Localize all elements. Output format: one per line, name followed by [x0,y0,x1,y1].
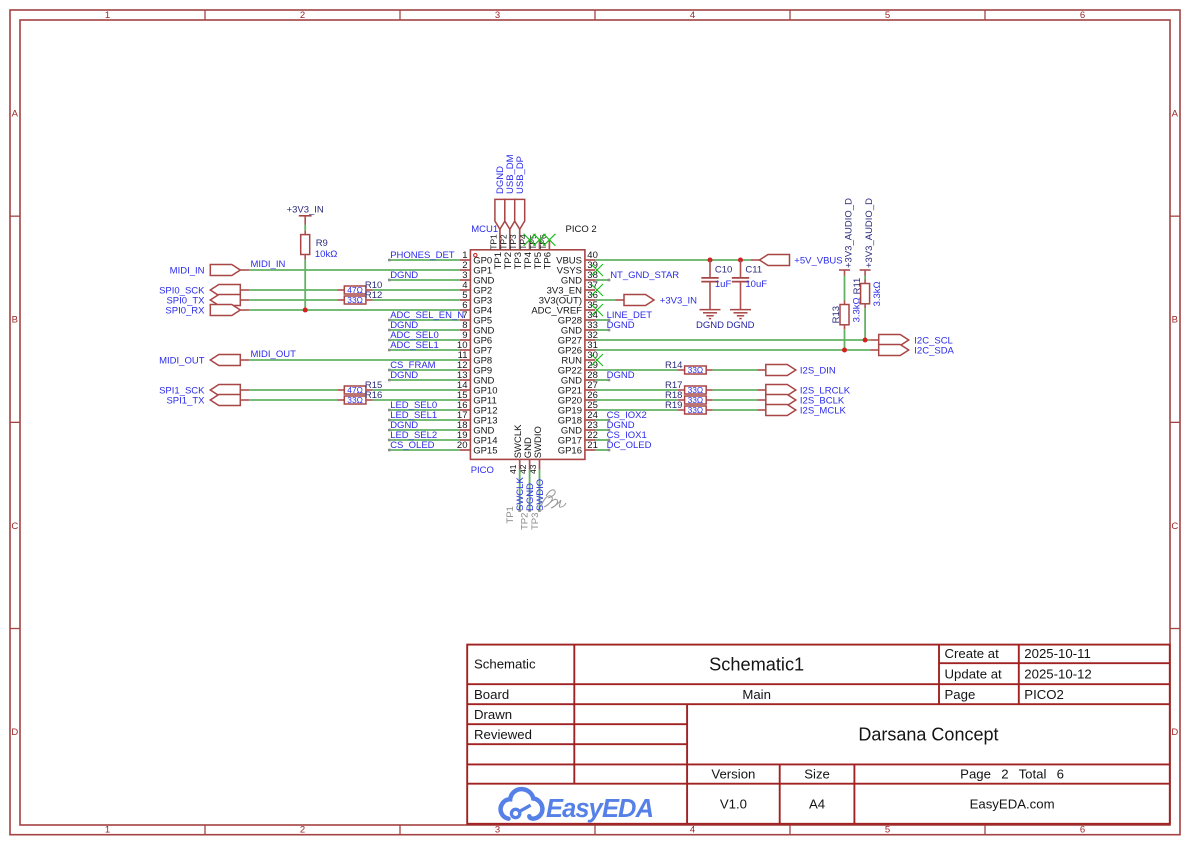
svg-text:1uF: 1uF [715,279,732,290]
net label DGND pin3 [390,270,418,281]
net label DGND (vertical) [495,166,506,194]
svg-text:Version: Version [711,767,755,782]
svg-text:CS_OLED: CS_OLED [390,440,434,451]
title text Update at [945,666,1003,681]
svg-text:3: 3 [495,10,500,21]
value 33ohm R12 [347,295,363,305]
ground net label DGND (C10) [696,320,724,331]
pin 6 GP4 (left) stub + number + name [460,300,492,316]
svg-text:NT_GND_STAR: NT_GND_STAR [610,270,679,281]
EasyEDA logo [501,789,654,823]
svg-text:4: 4 [690,10,695,21]
net label DGND pin33 [607,320,635,331]
op-amp? no - MCU U1 body rectangle (PICO 2) [470,250,585,460]
svg-text:I2C_SDA: I2C_SDA [914,346,954,357]
pin 37 3V3_EN (right) stub + number + name [547,280,598,296]
wire R11 to I2C_SCL [864,308,866,340]
resistor R16 33ohm [338,396,373,404]
resistor R17 33ohm [678,386,713,394]
title text Page [945,687,976,702]
svg-text:DGND: DGND [390,370,418,381]
port label I2S_BCLK [800,396,845,407]
svg-text:A: A [1172,109,1179,120]
svg-text:TP2: TP2 [520,513,531,530]
label C11 [745,264,762,275]
wire pin28 net DGND [595,379,610,382]
svg-text:TP3: TP3 [530,513,541,530]
pin 21 GP16 (right) stub + number + name [558,440,598,456]
svg-text:B: B [1172,315,1178,326]
value 3.3kohm R13 (vertical) [851,297,862,322]
net label LED_SEL0 pin16 [390,400,437,411]
net label CS_IOX2 pin24 [607,410,647,421]
net label ADC_SEL_EN_N pin7 [390,310,464,321]
wire SWDIO bottom pin [538,470,541,512]
port label SPI0_SCK [159,286,205,297]
wire pin8 net DGND [388,329,460,332]
wire pin7 net ADC_SEL_EN_N [388,319,460,322]
net label DGND pin13 [390,370,418,381]
svg-text:PICO2: PICO2 [1024,687,1064,702]
pin 8 GND (left) stub + number + name [460,320,495,336]
value 47ohm R15 [347,385,363,395]
connector funnel on TP2 [505,199,515,229]
pin 43 SWDIO (bottom) stub + number + name [528,426,544,474]
svg-text:47Ω: 47Ω [347,285,363,295]
svg-text:Darsana Concept: Darsana Concept [858,724,998,744]
wire R9 to SPI0_RX [304,260,306,310]
net label USB_DP (vertical) [515,156,526,194]
svg-text:+5V_VBUS: +5V_VBUS [794,256,842,267]
pin 25 GP19 (right) stub + number + name [558,400,598,416]
label R18 [665,390,682,401]
svg-text:MCU1: MCU1 [471,224,498,235]
svg-text:A: A [12,109,19,120]
value 33ohm R17 [688,385,704,395]
svg-text:R16: R16 [365,390,382,401]
net label DGND pin28 [607,370,635,381]
svg-text:5: 5 [885,10,890,21]
wire R14 to I2S_DIN port [713,369,758,371]
port label I2S_DIN [800,366,836,377]
wire R13 to I2C_SDA [844,329,846,350]
port label MIDI_IN [170,266,205,277]
label R11 (vertical) [852,278,863,295]
pin TP3 (top) stub + number + name [508,229,524,269]
wire R18 to I2S_BCLK port [713,399,758,401]
wire VBUS pin40 [595,259,751,261]
svg-text:DGND: DGND [696,320,724,331]
title text Version [711,767,755,782]
svg-text:R12: R12 [365,290,382,301]
port SPI1_SCK connector [210,385,249,396]
svg-text:MIDI_IN: MIDI_IN [170,266,205,277]
resistor R10 47ohm [338,286,373,294]
label R17 [665,380,682,391]
title value A4 [809,796,825,811]
pin 26 GP20 (right) stub + number + name [558,390,598,406]
resistor R18 33ohm [678,396,713,404]
label R16 [365,390,382,401]
wire +3V3_IN pin36 [595,299,616,301]
net label DGND pin23 [607,420,635,431]
svg-text:41: 41 [508,464,518,474]
wire pin18 net DGND [388,429,460,432]
wire SPI0_RX pin6 [249,309,460,311]
wire pin20 net CS_OLED [388,449,460,452]
pin 42 GND (bottom) stub + number + name [518,437,534,474]
port I2S_MCLK connector [757,405,796,416]
svg-text:Update at: Update at [945,666,1003,681]
wire MIDI_OUT pin11 [249,359,460,361]
MCU value PICO 2 [566,224,597,235]
port I2S_LRCLK connector [757,385,796,396]
no-connect flag on TP5 [534,234,546,246]
ground DGND under C11 [730,310,751,319]
svg-text:5: 5 [885,824,890,835]
title value 2025-10-11 [1024,646,1090,661]
port I2S_BCLK connector [757,395,796,406]
title value 2025-10-12 [1024,666,1091,681]
port label I2C_SCL [914,336,953,347]
value 1uF C10 [715,279,732,290]
value 33ohm R14 [688,365,704,375]
svg-text:TP6: TP6 [543,252,554,269]
net label USB_DM (vertical) [505,154,516,194]
connector funnel on TP3 [515,199,525,229]
wire pin9 net ADC_SEL0 [388,339,460,342]
wire pin27 to R17 [595,389,678,391]
svg-text:4: 4 [690,824,695,835]
MCU reference designator MCU1 [471,224,498,235]
net label SWDIO (vertical) [535,479,546,511]
no-connect flag on TP4 [524,234,536,246]
wire pin3 net DGND [388,279,460,282]
svg-text:D: D [11,727,18,738]
label R9 [316,238,328,249]
pin 16 GP12 (left) stub + number + name [457,400,498,416]
svg-text:ADC_SEL1: ADC_SEL1 [390,340,439,351]
svg-text:+3V3_AUDIO_D: +3V3_AUDIO_D [864,198,875,268]
net label DGND (vertical) [525,483,536,511]
svg-text:C: C [11,521,18,532]
svg-text:Create at: Create at [945,646,1000,661]
pin 1 GP0 (left) stub + number + name [460,250,492,266]
wire pin24 net CS_IOX2 [595,419,610,422]
svg-text:I2S_MCLK: I2S_MCLK [800,406,847,417]
title text Schematic1 [709,655,804,675]
connector funnel on TP1 [495,199,505,229]
net label LINE_DET pin34 [607,310,653,321]
pin 4 GP2 (left) stub + number + name [460,280,492,296]
wire MIDI_IN pin2 [249,269,460,271]
pin-1 origin marker dot [474,254,477,257]
svg-text:33Ω: 33Ω [688,405,704,415]
net label DGND pin8 [390,320,418,331]
pin 33 GND (right) stub + number + name [561,320,598,336]
svg-text:+3V3_IN: +3V3_IN [660,296,697,307]
svg-text:C10: C10 [715,264,732,275]
svg-text:33Ω: 33Ω [347,395,363,405]
wire pin12 net CS_FRAM [388,369,460,372]
wire pin29 to R14 [595,369,678,371]
label R19 [665,400,682,411]
svg-text:SWDIO: SWDIO [533,426,544,458]
resistor R13 3.3k [840,301,849,330]
port SPI0_RX connector [210,305,249,316]
svg-text:SPI0_RX: SPI0_RX [165,306,205,317]
resistor R12 33ohm [338,296,373,304]
svg-text:GP15: GP15 [473,445,497,456]
wire pin23 net DGND [595,429,610,432]
pin 12 GP9 (left) stub + number + name [457,360,492,376]
port label I2S_LRCLK [800,386,851,397]
svg-text:33Ω: 33Ω [688,385,704,395]
net label CS_IOX1 pin22 [607,430,647,441]
svg-text:SWDIO: SWDIO [535,479,546,511]
value 33ohm R19 [688,405,704,415]
net label PHONES_DET pin1 [390,250,455,261]
wire R19 to I2S_MCLK port [713,409,758,411]
port I2C_SDA connector [870,345,909,356]
ground DGND under C10 [700,310,721,319]
pin 3 GND (left) stub + number + name [460,270,495,286]
svg-text:Page: Page [945,687,976,702]
svg-text:R13: R13 [831,306,842,323]
svg-text:3: 3 [495,824,500,835]
power flag +3V3_AUDIO_D (left) [839,198,854,276]
wire pin13 net DGND [388,379,460,382]
title value PICO2 [1024,687,1064,702]
port label +5V_VBUS [794,256,842,267]
pin 38 GND (right) stub + number + name [561,270,598,286]
pin TP5 (top) stub + number + name [528,234,544,269]
svg-text:Page 2 Total 6: Page 2 Total 6 [960,767,1064,782]
svg-text:3.3kΩ: 3.3kΩ [872,281,883,306]
value 3.3kohm R11 (vertical) [872,281,883,306]
pin 15 GP11 (left) stub + number + name [457,390,497,406]
port label SPI1_SCK [159,386,205,397]
pin 40 VBUS (right) stub + number + name [556,250,598,266]
junction VBUS/C10 [708,258,713,263]
wire I2C_SDA pin31 GP26 [595,349,870,351]
title text Reviewed [474,727,532,742]
port label SPI0_TX [166,296,205,307]
pin 30 RUN (right) stub + number + name [561,350,597,366]
wire pin10 net ADC_SEL1 [388,349,460,352]
wire SPI1_SCK pin14 [249,389,460,391]
svg-text:DGND: DGND [727,320,755,331]
svg-text:+3V3_AUDIO_D: +3V3_AUDIO_D [843,198,854,268]
svg-text:Board: Board [474,687,509,702]
capacitor C10 1uF [701,260,718,309]
pin TP2 (top) stub + number + name [498,229,514,269]
no-connect flag pin 30 [591,354,603,366]
label R12 [365,290,382,301]
pin TP6 (top) stub + number + name [538,234,554,269]
title value EasyEDA.com [970,796,1055,811]
wire SWCLK bottom pin [518,470,521,512]
resistor R19 33ohm [678,406,713,414]
junction VBUS/C11 [738,258,743,263]
svg-text:DGND: DGND [390,270,418,281]
pin 20 GP15 (left) stub + number + name [457,440,498,456]
svg-text:C: C [1171,521,1178,532]
pin 19 GP14 (left) stub + number + name [457,430,498,446]
pin 31 GP26 (right) stub + number + name [558,340,598,356]
svg-text:2: 2 [300,824,305,835]
svg-text:EasyEDA: EasyEDA [546,795,653,823]
wire pin38 net NT_GND_STAR [595,279,610,282]
pin 32 GP27 (right) stub + number + name [558,330,598,346]
pin 22 GP17 (right) stub + number + name [558,430,598,446]
svg-text:10uF: 10uF [745,279,767,290]
wire pin34 net LINE_DET [595,319,610,322]
value 10uF C11 [745,279,767,290]
wire pin16 net LED_SEL0 [388,409,460,412]
port label +3V3_IN [660,296,697,307]
svg-text:Size: Size [804,767,830,782]
port MIDI_OUT connector [210,355,249,366]
port I2S_DIN connector [757,365,796,376]
svg-text:TP2: TP2 [498,234,508,250]
wire pin21 net DC_OLED [595,449,610,452]
svg-text:TP1: TP1 [488,234,498,250]
net label ADC_SEL0 pin9 [390,330,439,341]
svg-text:TP3: TP3 [508,234,518,250]
junction R9/SPI0_RX [303,308,308,313]
svg-text:33Ω: 33Ω [688,395,704,405]
pin 23 GND (right) stub + number + name [561,420,598,436]
port MIDI_IN connector [210,265,249,276]
gray scribble overlapping text [541,490,566,508]
pin 14 GP10 (left) stub + number + name [457,380,498,396]
resistor R11 3.3k [861,280,870,309]
test point designator TP3 (gray vertical) [530,513,541,530]
power flag +3V3_AUDIO_D (right) [860,198,875,276]
net label CS_OLED pin20 [390,440,434,451]
no-connect flag pin 37 [591,284,603,296]
no-connect flag on TP6 [543,234,555,246]
svg-text:Main: Main [742,687,771,702]
value 10kohm R9 [315,249,337,260]
wire net name MIDI_OUT [251,349,297,360]
wire +3V3_AUDIO_D to R13 [844,276,846,301]
svg-text:Drawn: Drawn [474,707,512,722]
wire pin22 net CS_IOX1 [595,439,610,442]
no-connect flag pin 35 [591,304,603,316]
pin 7 GP5 (left) stub + number + name [460,310,492,326]
capacitor C11 10uF [732,260,749,309]
svg-text:C11: C11 [745,264,762,275]
svg-text:D: D [1171,727,1178,738]
svg-text:B: B [12,315,18,326]
title text Darsana Concept [858,724,998,744]
pin TP1 (top) stub + number + name [488,229,504,269]
svg-text:EasyEDA.com: EasyEDA.com [970,796,1055,811]
svg-text:V1.0: V1.0 [720,796,747,811]
svg-text:USB_DP: USB_DP [515,156,526,194]
wire I2C_SCL pin32 GP27 [595,339,870,341]
pin 13 GND (left) stub + number + name [457,370,495,386]
svg-text:10kΩ: 10kΩ [315,249,337,260]
title text Size [804,767,830,782]
wire SPI0_TX pin5 [249,299,460,301]
port label I2C_SDA [914,346,954,357]
port label SPI0_RX [165,306,205,317]
svg-text:SPI1_TX: SPI1_TX [166,396,205,407]
svg-text:DGND: DGND [607,320,635,331]
title value V1.0 [720,796,747,811]
label R15 [365,380,382,391]
label R13 (vertical) [831,306,842,323]
net label DC_OLED pin21 [607,440,652,451]
svg-text:6: 6 [1080,10,1085,21]
title text Schematic [474,657,536,672]
pin 17 GP13 (left) stub + number + name [457,410,498,426]
title text Page 2 Total 6 [960,767,1064,782]
net label DGND pin18 [390,420,418,431]
value 47ohm R10 [347,285,363,295]
svg-text:A4: A4 [809,796,825,811]
net label NT_GND_STAR pin38 [610,270,679,281]
no-connect flag pin 39 [591,264,603,276]
svg-text:R11: R11 [852,278,863,295]
wire R17 to I2S_LRCLK port [713,389,758,391]
svg-text:MIDI_OUT: MIDI_OUT [251,349,297,360]
svg-text:I2S_DIN: I2S_DIN [800,366,836,377]
port SPI0_SCK connector [210,285,249,296]
wire pin33 net DGND [595,329,610,332]
ground net label DGND (C11) [727,320,755,331]
resistor R14 33ohm [678,366,713,374]
svg-text:PHONES_DET: PHONES_DET [390,250,455,261]
pin 35 ADC_VREF (right) stub + number + name [531,300,598,316]
svg-text:MIDI_IN: MIDI_IN [251,259,286,270]
port label MIDI_OUT [159,356,205,367]
junction R13/I2C_SDA [842,348,847,353]
pin 2 GP1 (left) stub + number + name [460,260,492,276]
wire pin25 to R19 [595,409,678,411]
port SPI1_TX connector [210,395,249,406]
svg-text:47Ω: 47Ω [347,385,363,395]
resistor R9 10k [301,231,310,260]
port label I2S_MCLK [800,406,847,417]
pin TP4 (top) stub + number + name [518,234,534,269]
svg-text:DC_OLED: DC_OLED [607,440,652,451]
svg-text:Schematic: Schematic [474,657,536,672]
net label SWCLK (vertical) [515,477,526,511]
svg-text:2: 2 [300,10,305,21]
wire pin19 net LED_SEL2 [388,439,460,442]
title value Main [742,687,771,702]
power flag +3V3_IN (top left) [287,204,324,224]
label R10 [365,280,382,291]
svg-text:GP16: GP16 [558,445,582,456]
wire SPI0_SCK pin4 [249,289,460,291]
svg-text:PICO: PICO [471,465,494,476]
net label ADC_SEL1 pin10 [390,340,439,351]
title text Board [474,687,509,702]
title text Drawn [474,707,512,722]
svg-text:PICO 2: PICO 2 [566,224,597,235]
value 33ohm R16 [347,395,363,405]
svg-text:1: 1 [105,824,110,835]
pin 5 GP3 (left) stub + number + name [460,290,492,306]
svg-text:+3V3_IN: +3V3_IN [287,204,324,215]
pin 28 GND (right) stub + number + name [561,370,598,386]
resistor R15 47ohm [338,386,373,394]
